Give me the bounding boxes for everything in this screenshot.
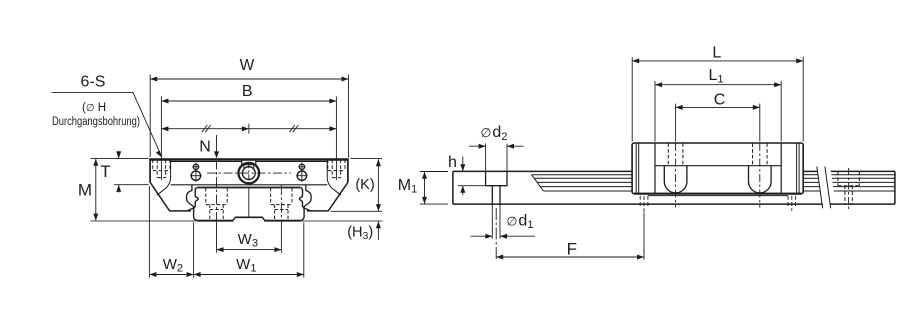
block top inner line [171,161,242,163]
end cap seam left [654,144,656,194]
svg-text:∅d2: ∅d2 [481,124,508,143]
svg-text:W3: W3 [238,231,258,250]
rail bolt hole left (hidden dashed) [206,188,227,220]
U slot left [664,166,687,193]
rail cross-section outline [194,188,305,221]
hole centerline right through block [759,143,761,208]
svg-text:(H3): (H3) [347,225,373,242]
svg-text:∅d1: ∅d1 [507,212,534,231]
hole centerline right end [335,156,337,180]
svg-text:C: C [714,91,726,108]
right leg inner profile [304,185,311,211]
rail side view outline [452,171,454,204]
rail right end edge [894,171,896,204]
carriage block outer outline [150,160,348,182]
hidden rail hole right (dashed) [838,172,859,204]
hole centerline left (N / W3 extension) [216,160,218,223]
svg-text:Durchgangsbohrung): Durchgangsbohrung) [52,116,140,128]
svg-text:M1: M1 [398,177,417,196]
block inner horizontal line [655,165,781,167]
rail bolt hole right (hidden dashed) [271,188,292,220]
end cap corner curve right [327,159,341,195]
block right chamfer [307,182,348,211]
dimension L [631,57,633,142]
dimension W2 [148,186,150,278]
dimension T [114,184,149,186]
block top edge [149,158,348,160]
dimension (K) [351,158,382,160]
rail end counterbore (d2/d1) [486,171,507,185]
dimension M [91,158,149,160]
dimension M1 [420,171,448,173]
svg-text:6-S: 6-S [81,74,106,91]
svg-text:T: T [100,162,110,181]
carriage block side view outline [632,143,803,194]
end cap corner curve left [157,159,171,195]
dimension d2 [485,144,487,171]
rail center line [248,188,250,217]
svg-text:(∅ H: (∅ H [82,102,106,114]
rail top line right segments [803,170,817,172]
dimension C [675,104,677,142]
hole centerline left end [160,156,162,180]
groove lines right of block [803,175,895,191]
6-S hidden counterbore right (dashed) [328,160,345,178]
dimension F [495,208,497,261]
svg-text:W2: W2 [163,256,183,275]
hidden hole centerline under block left (F extension) [643,196,645,213]
svg-text:B: B [242,83,253,100]
dimension W1 [303,223,305,278]
grease nipple boss [242,159,256,165]
dimension W [149,75,151,158]
nipple horizontal centerline [207,172,291,174]
svg-text:W: W [240,57,255,74]
rail top line left segment [453,170,632,172]
rail groove lines with fan transition [532,174,633,176]
block underside line [171,184,328,186]
tapped hole right (dashed) [753,143,768,165]
rail bottom extension line left [91,220,197,222]
rail break lines [817,167,823,209]
svg-text:N: N [199,139,211,156]
rail cross-section top edge [197,187,300,189]
dimension W3 [217,249,282,251]
nipple vertical centerline [248,162,250,184]
end seal lines left [635,144,637,194]
dimension L1 [654,81,656,142]
grease nipple [239,163,260,184]
dimension B [160,97,162,157]
end cap seam right [780,144,782,194]
rail bottom extension line right [302,220,383,222]
block bottom thick line [634,193,801,195]
hole centerline right (W3 extension) [280,185,282,222]
rail bottom line [453,203,823,205]
block left chamfer [150,182,191,211]
left leg inner profile [187,185,194,211]
side screw hole left [193,164,198,169]
end seal lines right [798,144,800,194]
svg-text:h: h [448,154,457,171]
side screw hole right [299,164,304,169]
svg-text:L: L [712,45,721,62]
U slot right [749,166,772,193]
6-S hidden counterbore left (dashed) [153,160,170,178]
tapped hole left (dashed) [668,143,683,165]
svg-text:M: M [78,181,92,200]
svg-text:F: F [567,240,577,259]
rail bottom edge (thick segments) [197,220,233,222]
hole centerline left through block [675,143,677,208]
svg-text:L1: L1 [708,67,723,86]
dimension d1 [491,205,493,239]
svg-text:(K): (K) [355,177,374,193]
svg-text:W1: W1 [236,256,256,275]
hidden hole under block right [791,196,793,211]
dimension (H3) [377,221,379,240]
dimension B/2 with equality marks [161,128,336,130]
